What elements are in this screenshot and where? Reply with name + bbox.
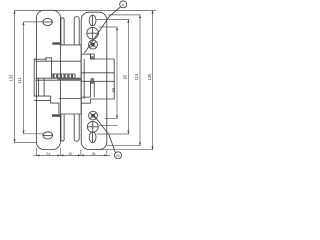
svg-text:M: M bbox=[116, 154, 119, 158]
svg-text:20: 20 bbox=[69, 152, 73, 156]
svg-text:65: 65 bbox=[111, 87, 116, 92]
svg-text:111: 111 bbox=[17, 77, 22, 84]
svg-text:A: A bbox=[122, 3, 125, 7]
svg-text:24: 24 bbox=[46, 152, 50, 156]
svg-text:133: 133 bbox=[9, 74, 14, 82]
svg-text:26: 26 bbox=[92, 152, 96, 156]
svg-text:115: 115 bbox=[134, 73, 139, 80]
svg-text:95: 95 bbox=[123, 74, 128, 79]
svg-text:135: 135 bbox=[147, 73, 152, 81]
